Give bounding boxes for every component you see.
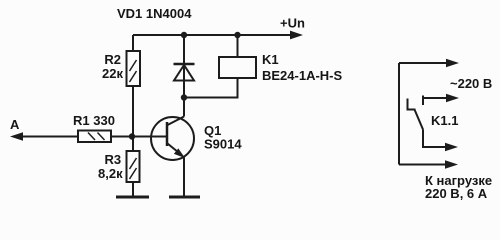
junction dot base node [129, 133, 135, 139]
diode VD1 [174, 35, 195, 97]
svg-text:R2: R2 [104, 52, 121, 67]
junction dot rail/VD1 [181, 32, 187, 38]
label R2 22к [102, 52, 123, 81]
junction dot rail/K1 [234, 32, 240, 38]
junction dot collector node [181, 94, 187, 100]
resistor R1 [78, 131, 111, 143]
label Q1 S9014 [204, 123, 242, 152]
svg-text:R1 330: R1 330 [73, 113, 115, 128]
label К нагрузке 220 В, 6 А [425, 173, 492, 201]
ground under R3 [116, 196, 149, 199]
svg-text:~220 В: ~220 В [450, 76, 492, 91]
transistor Q1 [151, 97, 194, 196]
wire R1 to base [111, 136, 166, 138]
svg-text:22к: 22к [102, 66, 123, 81]
svg-text:S9014: S9014 [204, 137, 242, 152]
wire 220V left bus [398, 63, 400, 165]
wire arrow ~220V top [399, 59, 459, 67]
svg-text:ВЕ24-1А-Н-S: ВЕ24-1А-Н-S [262, 68, 343, 83]
wire arrow to load [399, 160, 458, 168]
relay contact K1.1 [408, 99, 424, 130]
svg-text:K1: K1 [262, 52, 279, 67]
relay coil K1 [184, 35, 256, 98]
svg-text:8,2к: 8,2к [98, 166, 123, 181]
ground under emitter [169, 196, 200, 199]
svg-text:A: A [10, 117, 20, 132]
wire top rail to +Un [133, 31, 303, 40]
label R3 8,2к [98, 152, 123, 181]
resistor R3 [127, 137, 140, 197]
resistor R2 [127, 35, 141, 137]
wire arrow contact top [423, 94, 459, 105]
svg-text:K1.1: K1.1 [431, 113, 458, 128]
svg-text:R3: R3 [105, 152, 122, 167]
wire arrow contact bottom [423, 130, 458, 152]
svg-text:220 В, 6 А: 220 В, 6 А [425, 186, 488, 201]
svg-text:VD1 1N4004: VD1 1N4004 [117, 6, 192, 21]
label K1 ВЕ24-1А-Н-S [262, 52, 343, 83]
node A arrow [10, 132, 78, 140]
svg-text:+Un: +Un [280, 16, 305, 31]
